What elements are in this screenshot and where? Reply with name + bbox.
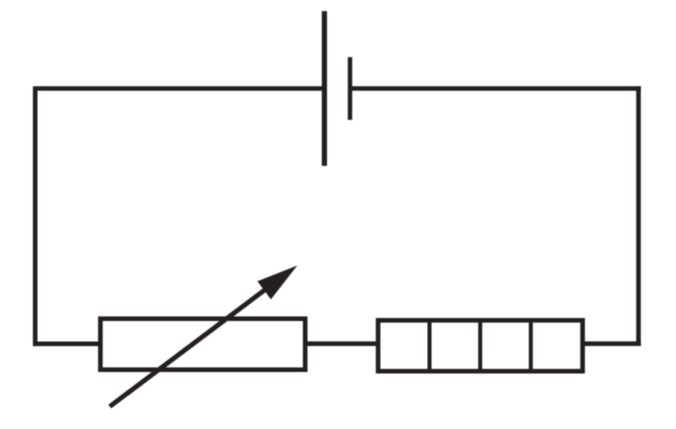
wire: top-right horizontal segment from right corner to battery short plate	[348, 86, 641, 91]
wire: bottom-left horizontal segment to rheostat	[33, 341, 101, 346]
battery cell: short plate (negative terminal)	[348, 57, 352, 120]
resistance box: divider 2	[478, 320, 482, 371]
variable resistor (rheostat): diagonal arrow shaft	[110, 286, 270, 407]
wire: right vertical segment	[636, 86, 641, 346]
resistance box: body rectangle	[378, 320, 582, 371]
resistance box: divider 1	[428, 320, 432, 371]
wire: bottom-middle horizontal segment between rheostat and resistance box	[305, 341, 379, 346]
variable resistor (rheostat): arrowhead	[257, 266, 297, 300]
battery cell: long plate (positive terminal)	[322, 11, 327, 166]
resistance box: divider 3	[529, 320, 533, 371]
wire: bottom-right horizontal segment from resistance box to right corner	[582, 341, 641, 346]
wire: left vertical segment	[33, 86, 38, 346]
wire: top-left horizontal segment from battery long plate to left corner	[38, 86, 325, 91]
variable resistor (rheostat): body rectangle	[100, 319, 305, 370]
